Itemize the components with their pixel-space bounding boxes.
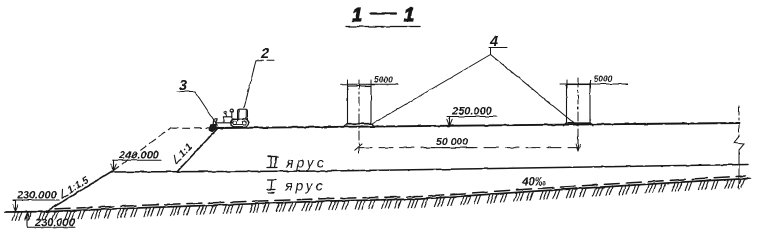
svg-text:ярус: ярус xyxy=(285,155,327,171)
bulldozer (element 2) xyxy=(209,109,249,132)
axis break line at right xyxy=(734,106,744,189)
dashed line above ground xyxy=(55,176,745,209)
svg-text:ярус: ярус xyxy=(284,178,326,194)
blade xyxy=(213,119,216,128)
top of tier I line xyxy=(112,165,748,173)
marker post right (element 4) xyxy=(564,78,594,151)
temporary slope 1:1 (solid) xyxy=(178,128,218,171)
push frame and lift arm xyxy=(217,122,234,124)
marker post left (element 4) xyxy=(345,80,375,153)
tier I label xyxy=(267,178,326,194)
soil heap at blade xyxy=(209,124,217,132)
svg-text:50 000: 50 000 xyxy=(436,136,468,148)
hood xyxy=(224,117,232,123)
right post width dimension 5000 xyxy=(560,74,628,89)
dashed design slope 1:1.5 of tier II xyxy=(113,128,171,171)
svg-text:5000: 5000 xyxy=(594,74,613,84)
svg-text:1: 1 xyxy=(404,5,414,25)
title 1-1 xyxy=(346,5,420,27)
left post width dimension 5000 xyxy=(341,75,398,89)
svg-text:240.000: 240.000 xyxy=(118,150,160,162)
svg-text:5000: 5000 xyxy=(374,75,393,85)
lower slope 1:1.5 of tier I xyxy=(46,171,112,212)
label 2 with leader xyxy=(244,46,275,108)
svg-text:1: 1 xyxy=(352,5,362,25)
svg-text:250.000: 250.000 xyxy=(451,106,493,118)
elevation mark 240.000 xyxy=(111,150,161,171)
track xyxy=(231,119,249,127)
tier II label xyxy=(267,155,327,171)
slope label 1:1.5 (lower) xyxy=(58,175,91,201)
slope label 1:1 (upper) xyxy=(170,142,195,167)
ground hatching xyxy=(12,179,744,220)
crest line (top of tier II) xyxy=(218,123,740,128)
exhaust stack xyxy=(231,112,233,117)
svg-text:2: 2 xyxy=(260,46,269,62)
elevation mark 230.000 upper xyxy=(13,190,59,212)
elevation mark 250.000 xyxy=(447,106,497,127)
natural ground line xyxy=(5,179,750,213)
svg-text:40‰: 40‰ xyxy=(521,177,547,189)
dimension line 50000 xyxy=(358,136,578,148)
label 3 with leader xyxy=(177,78,218,126)
cab xyxy=(238,109,248,121)
gear lever xyxy=(225,113,228,116)
dashed design crest extension xyxy=(171,127,214,129)
label 4 with leaders xyxy=(372,34,577,126)
elevation mark 230.000 lower xyxy=(25,213,76,230)
